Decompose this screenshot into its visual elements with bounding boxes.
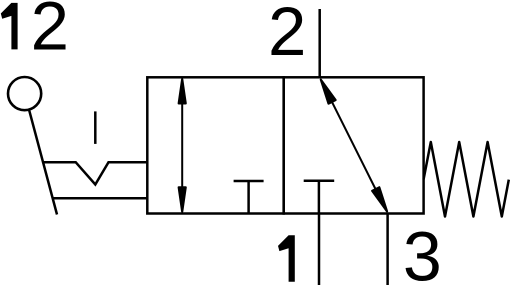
valve body left square xyxy=(147,77,283,213)
flow path arrow 2-3 (right square, double-headed diagonal) xyxy=(321,80,387,212)
flow path arrow 1-2 (left square, double-headed vertical) xyxy=(179,79,186,211)
lever arm xyxy=(29,110,57,214)
svg-text:3: 3 xyxy=(403,218,442,285)
label 1 xyxy=(278,235,295,281)
svg-text:2: 2 xyxy=(31,0,69,64)
detent pin xyxy=(94,111,97,143)
port 2 line xyxy=(318,9,321,77)
blocked port 1 (right square, T symbol) xyxy=(304,181,335,213)
detent bottom line xyxy=(52,197,147,200)
port 1 line xyxy=(318,214,321,285)
label 12: digit 1 xyxy=(1,3,18,50)
svg-text:2: 2 xyxy=(268,0,306,70)
port 3 line xyxy=(386,214,389,285)
detent notch top line xyxy=(43,162,148,184)
lever knob xyxy=(8,77,41,110)
return spring xyxy=(424,142,509,217)
blocked port 3 (left square, T symbol) xyxy=(234,181,264,213)
valve body right square xyxy=(284,77,424,213)
